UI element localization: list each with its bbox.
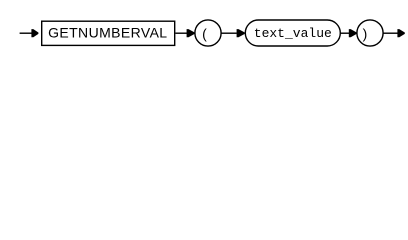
circle ) bbox=[357, 20, 383, 46]
arrow into ( bbox=[187, 29, 195, 37]
oval text_value bbox=[245, 20, 340, 46]
circle ( bbox=[195, 20, 221, 46]
wire exit bbox=[383, 32, 398, 34]
box GETNUMBERVAL bbox=[42, 21, 175, 45]
arrow into text_value bbox=[237, 29, 245, 37]
arrow into ) bbox=[349, 29, 357, 37]
svg-text:(: ( bbox=[202, 26, 207, 42]
svg-text:): ) bbox=[363, 26, 368, 42]
wire entry bbox=[20, 32, 33, 34]
svg-text:GETNUMBERVAL: GETNUMBERVAL bbox=[48, 25, 167, 41]
wire bbox=[221, 32, 237, 34]
arrow into GETNUMBERVAL box bbox=[31, 29, 38, 37]
arrow exit bbox=[397, 29, 404, 37]
wire bbox=[340, 32, 349, 34]
svg-text:text_value: text_value bbox=[254, 26, 332, 41]
wire bbox=[175, 32, 187, 34]
